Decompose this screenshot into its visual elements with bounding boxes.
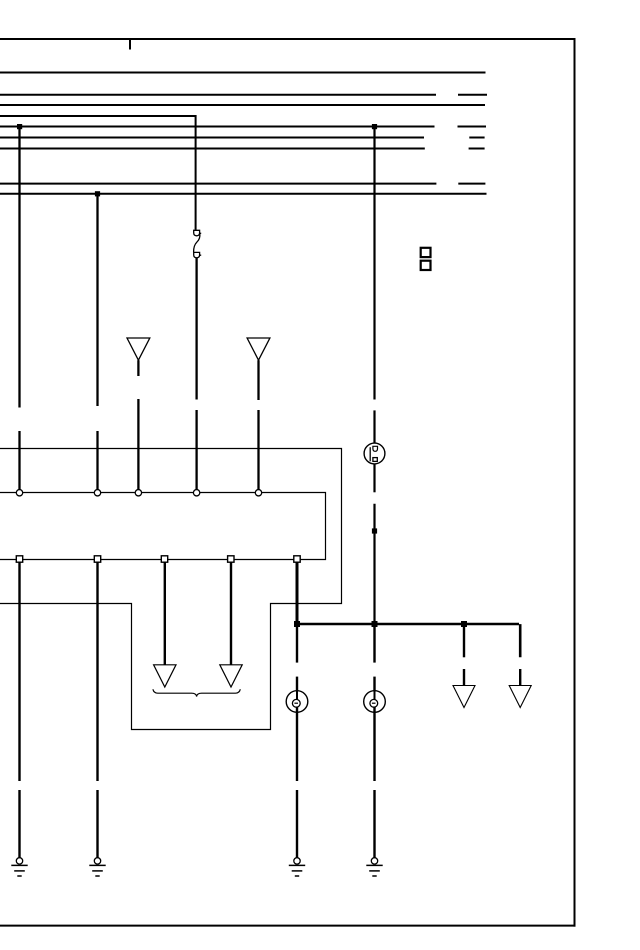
pin square x=19.5: [16, 556, 22, 562]
bus wire 6: [0, 137, 485, 139]
pin square x=97.5: [94, 556, 100, 562]
junction dot (374.5,624): [372, 621, 378, 627]
junction dot on bus 5 at x=19.5: [17, 124, 22, 129]
inline connector symbol at x=196.6: [194, 230, 202, 257]
ground symbol x=97.5: [89, 858, 105, 876]
bus wire 3: [0, 104, 485, 106]
wire x=164.8 to arrow: [164, 562, 166, 665]
wire below arrow x=138.4: [137, 360, 139, 493]
round connector symbol at (374.5,453.5): [364, 443, 385, 464]
ground wire x=97.5: [96, 562, 98, 858]
off-page arrow top x=258.5: [247, 338, 270, 360]
pin circle x=196.6: [193, 490, 199, 496]
bus wire 4 turning down at x=196.6: [0, 116, 197, 230]
bus wire 8: [0, 183, 485, 185]
junction dot on bus 5 at x=374.5: [372, 124, 377, 129]
wire below arrow x=258.5: [257, 360, 259, 493]
wire drop x=97.5 to pin: [96, 194, 98, 493]
pin square x=164.5: [161, 556, 167, 562]
wire x=374.5 lower: [373, 624, 375, 691]
ground wire x=19.5: [18, 562, 20, 858]
bus wire 1: [0, 72, 486, 74]
pin circle x=138.4: [135, 490, 141, 496]
bus wire 9: [0, 193, 487, 195]
wire x=297 lower: [296, 624, 298, 691]
pin square x=297: [294, 556, 300, 562]
legend square 1: [421, 248, 431, 257]
wire x=374.5 to ground: [373, 707, 375, 858]
wire x=231 to arrow: [230, 562, 232, 665]
junction dot (297,624): [294, 621, 300, 627]
page frame right border: [574, 38, 576, 927]
splice symbol (297,701.5): [286, 691, 308, 713]
bus wire 2: [0, 94, 487, 96]
tick mark on top border: [129, 39, 131, 50]
ground symbol x=374.5: [366, 858, 382, 876]
arrow triangle x=164.8: [154, 665, 176, 687]
bus wire 5: [0, 126, 486, 128]
wire x=464 to arrow: [463, 624, 465, 686]
ground symbol x=297: [289, 858, 305, 876]
page frame top border: [0, 38, 576, 40]
wire below inline connector x=196.6: [195, 258, 197, 493]
legend square 2: [421, 261, 431, 270]
arrow triangle x=231: [220, 665, 242, 687]
junction dot (464,624): [461, 621, 467, 627]
off-page arrow top x=138.4: [127, 338, 150, 360]
brace under arrows: [153, 689, 240, 696]
splice dot on wire x=374.5 at y=531: [372, 528, 377, 533]
pin circle x=258.5: [255, 490, 261, 496]
wire x=297 from pin to bus: [296, 562, 299, 624]
junction dot on bus 9 at x=97.5: [95, 191, 100, 196]
wire drop x=19.5 to pin: [18, 127, 20, 494]
bus wire 7: [0, 148, 485, 150]
control module outline: [0, 449, 342, 730]
wire x=374.5 below round connector: [373, 464, 375, 624]
pin square x=230.8: [228, 556, 234, 562]
arrow triangle x=520.2: [509, 686, 531, 708]
pin circle x=19.5: [16, 490, 22, 496]
wire drop x=374.5 upper: [373, 127, 375, 444]
page frame bottom border: [0, 925, 576, 927]
ground symbol x=19.5: [11, 858, 27, 876]
pin circle x=97.5: [94, 490, 100, 496]
thick branch bus y=624: [297, 624, 520, 657]
wire x=297 to ground: [296, 707, 298, 858]
wire x=520.2 to arrow: [519, 669, 521, 686]
splice symbol (374.5,701.5): [364, 691, 386, 713]
arrow triangle x=464: [453, 686, 475, 708]
connector row link line: [0, 493, 326, 560]
